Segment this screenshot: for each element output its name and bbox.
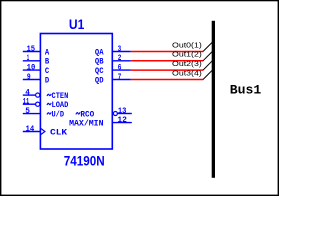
bus Bus1 (vertical thick line) xyxy=(212,21,215,178)
svg-text:LOAD: LOAD xyxy=(52,101,69,110)
pin D wire (pin 9) xyxy=(23,79,41,81)
inversion bubble pin 13 xyxy=(113,112,117,116)
pin ~CTEN wire (pin 4) xyxy=(23,94,36,96)
inversion bubble pin 4 xyxy=(36,93,40,97)
bus entry Out3 xyxy=(203,70,212,79)
svg-text:QD: QD xyxy=(95,76,104,85)
svg-text:QC: QC xyxy=(95,67,104,76)
svg-text:D: D xyxy=(45,76,49,85)
pin ~LOAD wire (pin 11) xyxy=(23,103,36,105)
svg-text:CLK: CLK xyxy=(50,128,67,137)
svg-text:14: 14 xyxy=(26,125,35,134)
clock triangle xyxy=(41,129,45,135)
pin B wire (pin 1) xyxy=(23,60,41,62)
pin CLK wire (pin 14) xyxy=(23,131,41,133)
svg-text:Out0(1): Out0(1) xyxy=(172,42,202,49)
inversion bubble pin 11 xyxy=(36,102,40,106)
svg-text:12: 12 xyxy=(117,116,127,125)
svg-text:2: 2 xyxy=(118,54,122,63)
svg-text:11: 11 xyxy=(23,98,30,107)
bus entry Out0 xyxy=(203,42,212,51)
svg-text:15: 15 xyxy=(27,45,36,54)
svg-text:Out1(2): Out1(2) xyxy=(172,52,202,59)
pin ~U/D wire (pin 5) xyxy=(23,113,41,115)
bus entry Out2 xyxy=(203,61,212,70)
pin MAX/MIN wire (pin 12) xyxy=(112,122,132,124)
svg-text:10: 10 xyxy=(27,63,36,72)
pin name ~CTEN xyxy=(47,94,51,96)
svg-text:5: 5 xyxy=(25,107,30,116)
svg-text:A: A xyxy=(45,48,49,57)
IC U1 body (74190N counter box) xyxy=(40,34,112,150)
svg-text:B: B xyxy=(45,58,49,67)
pin QD wire (pin 7) xyxy=(112,79,131,81)
svg-text:RCO: RCO xyxy=(80,110,94,119)
svg-text:U1: U1 xyxy=(69,17,85,32)
svg-text:6: 6 xyxy=(118,63,122,72)
border frame xyxy=(1,1,279,196)
svg-text:MAX/MIN: MAX/MIN xyxy=(69,119,104,128)
svg-text:74190N: 74190N xyxy=(64,154,105,169)
svg-text:U/D: U/D xyxy=(52,110,65,119)
svg-text:QA: QA xyxy=(95,48,104,57)
wire Out1 (red) xyxy=(131,60,203,62)
pin ~RCO wire (pin 13) xyxy=(118,113,132,115)
svg-text:13: 13 xyxy=(118,107,127,116)
svg-text:Out3(4): Out3(4) xyxy=(172,70,202,77)
pin name ~LOAD xyxy=(47,103,51,105)
pin QB wire (pin 2) xyxy=(112,60,131,62)
wire Out2 (red) xyxy=(131,69,203,71)
svg-text:Bus1: Bus1 xyxy=(230,83,262,98)
pin C wire (pin 10) xyxy=(23,69,41,71)
svg-text:QB: QB xyxy=(95,58,104,67)
wire Out3 (red) xyxy=(131,79,203,81)
wire Out0 (red) xyxy=(131,51,203,53)
svg-text:CTEN: CTEN xyxy=(52,92,69,101)
svg-text:1: 1 xyxy=(27,54,29,63)
pin name ~U/D xyxy=(47,112,51,114)
pin name ~RCO xyxy=(76,112,80,114)
svg-text:Out2(3): Out2(3) xyxy=(172,61,202,68)
svg-text:C: C xyxy=(45,67,49,76)
svg-text:7: 7 xyxy=(118,73,122,82)
bus entry Out1 xyxy=(203,51,212,60)
pin QA wire (pin 3) xyxy=(112,51,131,53)
svg-text:9: 9 xyxy=(27,73,31,82)
pin QC wire (pin 6) xyxy=(112,69,131,71)
svg-text:3: 3 xyxy=(118,45,122,54)
svg-text:4: 4 xyxy=(25,88,30,97)
pin A wire (pin 15) xyxy=(23,51,41,53)
